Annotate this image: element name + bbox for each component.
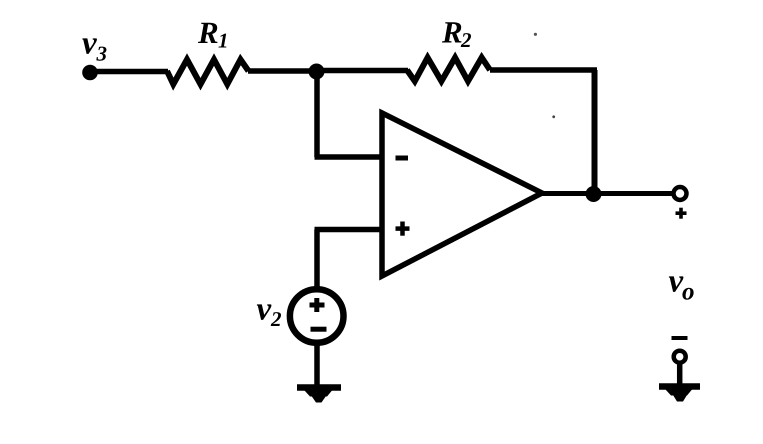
wire op-amp output to terminal	[542, 191, 677, 196]
scan speck above op-amp output corner	[552, 115, 555, 118]
wire node A down to inverting input	[315, 71, 383, 157]
junction output node	[586, 186, 602, 202]
wire R1 to node A	[248, 68, 318, 74]
label v3	[82, 38, 106, 60]
terminal vo+	[674, 187, 687, 200]
op-amp noninverting input marker +	[396, 222, 410, 236]
wire v3 to R1	[90, 69, 168, 75]
node v3 terminal	[82, 65, 98, 81]
terminal vo-	[674, 351, 686, 363]
op-amp U1	[382, 113, 542, 276]
label R1	[198, 23, 226, 48]
wire node A to R2	[317, 68, 409, 74]
source v2 polarity -	[311, 327, 327, 332]
source v2 polarity +	[310, 298, 325, 312]
label + at output terminal	[676, 208, 687, 219]
resistor R1	[167, 60, 249, 85]
wire feedback vertical	[592, 70, 598, 194]
label - at lower output terminal	[672, 336, 688, 340]
junction node A	[309, 64, 325, 80]
wire v2 to ground	[314, 344, 320, 387]
wire v2 to noninverting input	[315, 230, 383, 288]
label R2	[442, 22, 471, 47]
ground at output	[659, 387, 700, 402]
wire terminal to ground (output)	[677, 362, 683, 385]
label v2	[257, 304, 281, 326]
label vo	[669, 276, 694, 299]
source v2	[290, 289, 344, 343]
ground at v2	[297, 388, 341, 403]
op-amp inverting input marker -	[396, 156, 409, 161]
resistor R2	[407, 58, 490, 82]
scan speck near R2	[534, 33, 537, 36]
wire R2 to feedback corner	[490, 67, 597, 73]
